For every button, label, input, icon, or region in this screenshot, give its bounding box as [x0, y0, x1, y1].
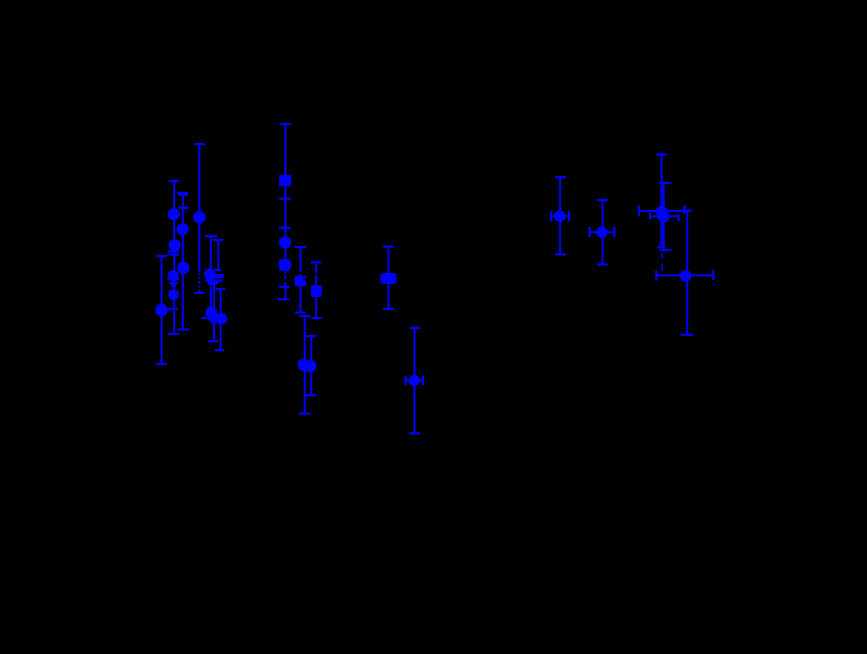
- C1 right h-cap: [394, 274, 396, 284]
- cap A1 top: [169, 180, 179, 182]
- cap E1a bottom: [657, 246, 665, 248]
- marker circle (161.6,310.1): [155, 304, 168, 317]
- marker circle (316.3,290.3): [311, 285, 322, 297]
- cap E1b bottom: [659, 249, 671, 251]
- cap A5c bottom: [208, 340, 218, 342]
- E1a horizontal error line: [639, 210, 685, 212]
- cap A3 y=207.8: [178, 207, 189, 209]
- marker circle (414.3,380.6): [409, 375, 420, 386]
- cap B2 bottom: [295, 311, 305, 313]
- marker circle (602.0,232.2): [596, 227, 607, 238]
- dashed stub below E1: [661, 254, 663, 259]
- E1a right h-cap: [683, 205, 685, 215]
- E1a left h-cap: [638, 206, 640, 216]
- error bar A2 vertical line x=161.5: [161, 256, 163, 364]
- error bar E1a vertical line x=661.5: [661, 155, 663, 248]
- E1b right h-cap: [677, 214, 679, 221]
- error bar B4 vertical line x=311.3: [310, 336, 312, 395]
- cap E2 top: [679, 210, 691, 212]
- C2 right h-cap: [422, 376, 424, 385]
- cap A3 top y=193.5: [177, 192, 188, 194]
- marker circle (559.8,216.2): [554, 211, 565, 222]
- marker circle (685.6,275.9): [680, 270, 692, 282]
- D2 horizontal error line: [590, 231, 615, 233]
- cap B1 y=286.8: [279, 286, 290, 288]
- error bar C2 vertical line x=414.5: [414, 328, 416, 434]
- cap B1 top: [280, 123, 292, 125]
- cap A5b bottom: [214, 269, 221, 271]
- marker circle (211.3,312.4): [206, 307, 218, 319]
- C2 left h-cap: [405, 376, 407, 385]
- cap A2 bottom: [156, 363, 167, 365]
- error bar A5c vertical line x=214.0: [213, 282, 215, 341]
- marker triangle-down (173.5,285): [168, 282, 178, 288]
- error bar A5b vertical line x=218.3: [217, 239, 219, 270]
- cap A4 top: [194, 143, 205, 145]
- cap C2 top: [409, 327, 420, 329]
- cap A3 bottom y=329.5: [178, 328, 189, 330]
- D2 left h-cap: [588, 227, 590, 237]
- marker circle (663.7,216.4): [658, 210, 670, 222]
- error bar A1 vertical line x=174: [173, 181, 175, 334]
- cap A5d top: [215, 288, 225, 290]
- cap D2 bottom: [597, 263, 608, 265]
- marker blob (173.5,294.9): [169, 291, 179, 296]
- error bar A3 vertical line x=182.8: [182, 194, 184, 330]
- dashed lower segment of A4: [198, 273, 200, 275]
- E2 horizontal error line: [656, 274, 713, 276]
- cap B4 top: [306, 335, 316, 337]
- wide overlap bar y=276: [205, 274, 224, 278]
- trapezoid marker (212.9,283): [207, 282, 220, 285]
- cap A1 y=251.5: [168, 250, 179, 252]
- cap C2 bottom: [409, 432, 420, 434]
- error bar B1 vertical line x=285.4: [284, 124, 286, 273]
- cap B1 y=227.7: [279, 227, 290, 229]
- partial cap y=317.8: [202, 317, 210, 319]
- E2 right h-cap: [712, 270, 714, 280]
- marker circle (214.2,317.8): [208, 312, 220, 324]
- cap E1a top: [656, 153, 667, 155]
- marker circle (174.7,245.2): [169, 239, 181, 251]
- cap D2 top: [597, 199, 608, 201]
- marker circle (221.7,318.8): [216, 313, 227, 324]
- marker square (388.5,278.5): [383, 273, 394, 284]
- E1b horizontal error line: [650, 215, 678, 217]
- cap B5 bottom: [311, 317, 321, 319]
- error bar A5d vertical line x=220.6: [220, 289, 222, 350]
- E2 left h-cap: [655, 270, 657, 280]
- cap A1 y=308.9: [168, 308, 177, 310]
- marker circle (174,214.4): [168, 208, 180, 220]
- cap B3 top: [299, 315, 310, 317]
- D2 right h-cap: [613, 227, 615, 237]
- marker circle (183.3,267.8): [177, 262, 189, 274]
- D1 left h-cap: [550, 211, 552, 221]
- marker square (285.2,180.2): [279, 175, 291, 186]
- C2 horizontal error line: [406, 379, 424, 381]
- wide bar y=278.7: [167, 277, 179, 280]
- marker circle (182.6,229.3): [177, 223, 189, 235]
- marker circle (661.7,211.9): [656, 206, 668, 218]
- cap A1 bottom y=333.8: [168, 333, 179, 335]
- marker circle (299.9,281.0): [295, 276, 307, 286]
- wide overlap bar y=280.4: [205, 279, 223, 281]
- error bar B3 vertical line x=304.7: [304, 316, 306, 414]
- cap A5b top: [213, 239, 223, 241]
- C1 left h-cap: [381, 274, 383, 284]
- error bar A4 vertical line x=199.4: [198, 144, 200, 272]
- cap B5 top: [311, 261, 321, 263]
- cap B3 bottom: [299, 413, 310, 415]
- cap A5a top: [205, 235, 217, 237]
- marker circle (310.5,366.3): [305, 360, 317, 372]
- cap B1 y=198.7: [279, 198, 290, 200]
- cap B2 top: [295, 246, 306, 248]
- cap E1b top: [659, 182, 671, 184]
- cap A4 bottom: [194, 292, 204, 294]
- C1 horizontal error line: [382, 278, 396, 280]
- cap A5d bottom: [215, 349, 225, 351]
- cap A1 y=254.5: [168, 254, 179, 256]
- error bar E2 vertical line x=687.2: [686, 211, 688, 335]
- error bar D2 vertical line x=602.6: [602, 200, 604, 264]
- error bar E1b vertical line x=663.8: [663, 183, 665, 250]
- cap D1 bottom: [555, 253, 566, 255]
- cap E2 bottom: [681, 334, 693, 336]
- cap C1 bottom: [383, 308, 394, 310]
- cap D1 top: [555, 176, 566, 178]
- cap C1 top: [383, 246, 394, 248]
- marker circle (284.2,242.0): [279, 236, 291, 248]
- error bar A5a vertical line x=210.8: [210, 236, 212, 311]
- cap B4 bottom: [306, 394, 316, 396]
- D1 right h-cap: [568, 211, 570, 221]
- error bar B2 vertical line x=300.5: [300, 247, 302, 272]
- cap A2 top: [156, 255, 167, 257]
- marker circle (199.4,217.3): [193, 211, 205, 223]
- E1b left h-cap: [649, 212, 651, 219]
- marker circle (303.7,364.7): [298, 359, 310, 371]
- marker circle (284.3,264.6): [279, 259, 290, 270]
- error bar C1 vertical line x=388.4: [387, 247, 389, 309]
- marker circle (209.6,274.3): [204, 269, 215, 280]
- marker circle (173.3,275.6): [168, 270, 179, 281]
- cap B1 bottom y=299.3: [278, 298, 290, 300]
- D1 horizontal error line: [551, 215, 569, 217]
- error bar D1 vertical line x=560.1: [559, 177, 561, 254]
- error bar B5 vertical line x=316.2: [315, 262, 317, 273]
